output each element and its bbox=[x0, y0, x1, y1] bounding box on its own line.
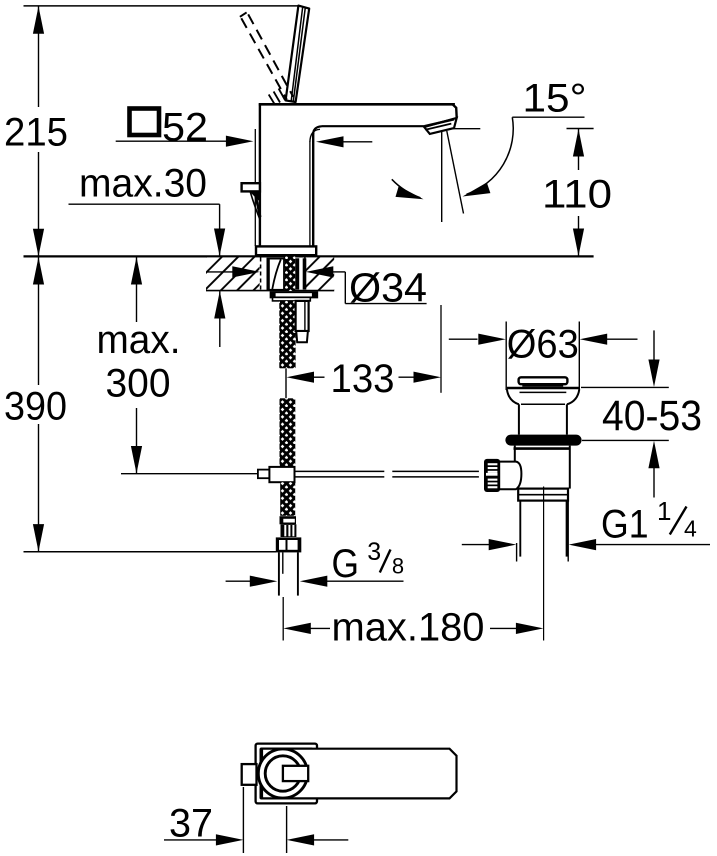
handle lever solid bbox=[286, 6, 310, 102]
extension line G1 left bbox=[516, 543, 518, 562]
svg-text:max.30: max.30 bbox=[79, 162, 207, 206]
pull rod left segment bbox=[295, 470, 385, 472]
top view cartridge outer circle bbox=[258, 749, 307, 798]
svg-text:4: 4 bbox=[684, 516, 697, 542]
extension line G1 right bbox=[567, 501, 569, 562]
drain flange top bbox=[507, 387, 580, 389]
dimension 133 left arrow bbox=[287, 372, 315, 383]
svg-text:G: G bbox=[332, 542, 360, 586]
svg-text:215: 215 bbox=[4, 111, 68, 155]
handle base dashes bbox=[269, 95, 275, 105]
reference line at spout outlet bbox=[445, 128, 481, 130]
faucet body right edge bbox=[312, 133, 314, 247]
hose centerline in gap bbox=[285, 368, 287, 398]
G3/8 pipe bbox=[278, 552, 280, 595]
countertop hatch left bbox=[206, 257, 260, 290]
svg-text:52: 52 bbox=[162, 105, 208, 149]
extension line drain flange left bbox=[505, 322, 507, 391]
dimension 110 vertical line with arrows bbox=[578, 129, 580, 170]
svg-text:max.180: max.180 bbox=[332, 606, 485, 650]
extension line at hose end (390 bottom) bbox=[24, 551, 277, 553]
mounting washer bbox=[271, 292, 318, 297]
drain plug cap bbox=[519, 377, 568, 384]
top view slot bar bbox=[283, 766, 308, 781]
faucet body left edge bbox=[259, 103, 261, 247]
side lever wedge bbox=[250, 192, 262, 204]
supply hose braid upper bbox=[279, 301, 295, 368]
extension line 37 right bbox=[286, 806, 288, 853]
drain side port bbox=[500, 462, 522, 490]
svg-text:15°: 15° bbox=[523, 77, 587, 121]
seal bars right bbox=[295, 258, 299, 289]
dimension 40-53 arrows bbox=[653, 330, 655, 361]
top view lever bbox=[262, 749, 457, 799]
dimension max.180 arrows bbox=[283, 623, 311, 634]
extension line at pull-rod level bbox=[121, 473, 258, 475]
drain body upper sides bbox=[518, 404, 520, 434]
svg-text:1: 1 bbox=[657, 496, 671, 526]
top view body square outer bbox=[256, 744, 317, 804]
svg-text:8: 8 bbox=[392, 554, 404, 579]
dimension arrows hole diameter 34 bbox=[207, 271, 235, 273]
extension line left of faucet body bbox=[254, 129, 256, 246]
rubber washer bbox=[273, 297, 311, 301]
water stream line tilted bbox=[447, 131, 464, 214]
leader line to label 34 bbox=[344, 272, 346, 304]
svg-text:max.: max. bbox=[97, 318, 181, 362]
drain tailpipe bbox=[519, 501, 521, 557]
svg-text:37: 37 bbox=[169, 801, 213, 845]
svg-text:40-53: 40-53 bbox=[602, 393, 702, 440]
countertop reference line bbox=[24, 255, 594, 257]
hole hidden edge right bbox=[304, 258, 306, 291]
fraction slash 3/8 bbox=[380, 550, 391, 573]
top view side tab bbox=[242, 764, 257, 785]
pull rod right segment bbox=[392, 470, 479, 472]
counter bottom line bbox=[206, 290, 334, 292]
15 degree leader underline bbox=[512, 116, 584, 118]
pull rod fitting small bbox=[258, 470, 270, 479]
aerator mousepiece bbox=[424, 118, 457, 134]
svg-text:300: 300 bbox=[106, 362, 171, 406]
extension line 110 top bbox=[567, 128, 594, 130]
faucet body inner right line bbox=[309, 142, 311, 248]
drain flange trumpet sides bbox=[507, 389, 519, 404]
hose ferrule bbox=[280, 516, 297, 524]
supply hose braid lower bbox=[280, 398, 296, 466]
dimension G1-1/4 arrows bbox=[462, 544, 490, 546]
top view body square inner bbox=[260, 748, 312, 798]
svg-text:G1: G1 bbox=[601, 502, 649, 546]
drain rubber seal bbox=[505, 435, 581, 446]
dimension arrows diameter 63 bbox=[449, 338, 478, 340]
52 leader line with right arrow bbox=[116, 140, 228, 142]
handle lever dashed open position bbox=[240, 12, 247, 16]
extension line outlet centerline bbox=[440, 305, 442, 393]
pull rod fitting large bbox=[269, 467, 294, 482]
swing arc right with arrowhead bbox=[467, 117, 514, 194]
max.30 arrow to countertop bbox=[219, 204, 221, 256]
countertop hatch right bbox=[306, 257, 334, 290]
svg-text:133: 133 bbox=[331, 357, 395, 401]
top view cartridge inner circle bbox=[265, 756, 300, 791]
extension line 40-53 top bbox=[581, 386, 669, 388]
shank hidden line bbox=[283, 257, 285, 300]
drain collar bbox=[518, 489, 568, 501]
seal wedge left bbox=[267, 259, 284, 290]
extension line hose centerline bottom bbox=[282, 597, 284, 641]
mounting nut bbox=[296, 301, 309, 331]
hose knurl section bbox=[281, 524, 297, 537]
52 opposing left arrow bbox=[342, 141, 372, 143]
base plate bbox=[256, 246, 316, 255]
G3/8 nut bbox=[276, 537, 302, 552]
spout inner corner fillet bbox=[313, 126, 321, 134]
extension line at handle top (max height reference) bbox=[24, 5, 302, 7]
dimension 390 vertical line with arrows bbox=[38, 257, 40, 385]
spout inner fillet second line bbox=[310, 129, 320, 142]
side lever tab bbox=[242, 183, 260, 191]
extension line 37 left bbox=[242, 787, 244, 853]
spout right end edge bbox=[453, 104, 457, 117]
water stream line vertical bbox=[441, 132, 443, 223]
spout underside bbox=[322, 125, 425, 127]
shank braid in counter bbox=[285, 257, 296, 292]
svg-text:Ø63: Ø63 bbox=[507, 322, 579, 366]
dimension G3/8 arrows bbox=[226, 580, 250, 582]
faucet body top edge bbox=[259, 103, 455, 106]
hole hidden edge left bbox=[260, 258, 262, 291]
fraction slash 1/4 bbox=[670, 507, 687, 535]
supply hose braid bottom bbox=[280, 482, 295, 516]
dimension max.300 vertical line with arrows bbox=[136, 257, 138, 322]
drain centerline bbox=[543, 487, 545, 641]
svg-text:390: 390 bbox=[4, 384, 67, 428]
extension line drain flange right bbox=[578, 322, 580, 391]
svg-text:3: 3 bbox=[367, 538, 381, 566]
swing arc left with arrowhead bbox=[392, 179, 421, 198]
drain neck lines bbox=[520, 391, 567, 393]
extension line 40-53 bottom bbox=[582, 439, 669, 441]
dimension 133 right arrow bbox=[399, 376, 416, 378]
max.30 arrow below counter bbox=[219, 291, 221, 347]
drain body below seal bbox=[514, 447, 571, 450]
svg-text:110: 110 bbox=[542, 173, 612, 217]
square symbol of 52 bbox=[130, 109, 160, 136]
dimension 37 arrows bbox=[164, 839, 218, 841]
mounting nut lower piece bbox=[296, 331, 308, 342]
adjusting knob knurled bbox=[484, 459, 500, 492]
dimension 215 vertical line with arrows bbox=[38, 6, 40, 107]
svg-text:Ø34: Ø34 bbox=[349, 264, 427, 310]
max.30 leader underline bbox=[69, 203, 220, 205]
